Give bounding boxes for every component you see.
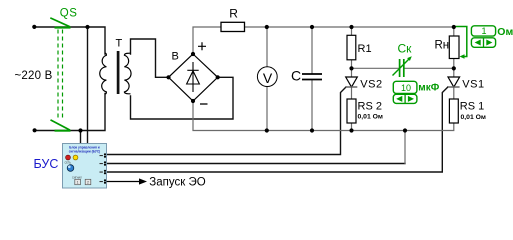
thyristor VS1 (448, 77, 460, 87)
spinner Ck value box (393, 81, 417, 103)
spinner Rn value box (471, 26, 495, 48)
arrow Zapusk EO (107, 181, 140, 183)
node voltmeter top rail junction (265, 25, 269, 29)
node phase tap junction (85, 25, 89, 29)
svg-text:B: B (172, 51, 179, 63)
capacitor C (302, 74, 322, 80)
svg-text:мкФ: мкФ (418, 82, 439, 93)
wire AC bottom (neutral) from primary bottom to left terminal (34, 94, 105, 131)
BUS button 1 (75, 179, 81, 184)
svg-text:Запуск ЭО: Запуск ЭО (149, 177, 205, 189)
BUS terminals (104, 153, 106, 184)
rheostat Rn wiper arrow (green) (456, 27, 467, 59)
svg-text:1: 1 (481, 26, 486, 36)
bridge inner diode (187, 62, 200, 92)
wire VS1 gate to BUS output 3 (107, 87, 448, 172)
rheostat Rn (449, 36, 459, 59)
thyristor VS2 (346, 77, 358, 87)
node VS2 anode junction (349, 66, 353, 70)
svg-text:2: 2 (87, 181, 89, 185)
wire DC bottom rail (193, 101, 454, 131)
node R1 top rail junction (349, 25, 353, 29)
label minus (200, 103, 208, 105)
svg-text:СИГНАЛ: СИГНАЛ (72, 176, 82, 179)
svg-text:10: 10 (401, 83, 411, 93)
bridge rectifier B diamond (169, 54, 218, 101)
BUS knob (67, 165, 74, 172)
svg-text:R1: R1 (358, 43, 372, 55)
svg-text:Ск: Ск (398, 42, 413, 56)
node capacitor C bottom rail junction (310, 128, 314, 132)
wire secondary bottom to bridge right vertex (131, 77, 234, 119)
node neutral tap junction (78, 128, 82, 132)
wire voltmeter stubs (266, 27, 268, 131)
svg-text:VS2: VS2 (360, 79, 382, 91)
wire Rn stubs (453, 27, 455, 68)
node AC input top terminal (32, 25, 36, 29)
svg-text:0,01 Ом: 0,01 Ом (461, 114, 486, 121)
wire VS2 gate to BUS output 1 (107, 87, 347, 155)
resistor R (221, 22, 245, 31)
transformer T core (117, 51, 120, 94)
node Rn top rail junction (452, 25, 456, 29)
wire R1 stubs (351, 27, 353, 68)
BUS button 2 (85, 179, 91, 184)
svg-text:RS 2: RS 2 (358, 101, 382, 113)
svg-text:СЕТЬ: СЕТЬ (65, 161, 72, 164)
svg-text:V: V (263, 70, 273, 86)
resistor RS2 (347, 99, 356, 123)
svg-text:C: C (291, 67, 301, 83)
resistor RS1 (449, 99, 458, 123)
wire phase tap down to BUS unit (87, 27, 89, 144)
node VS1 anode junction (452, 66, 456, 70)
wire anode node VS2 to Ck left plate (352, 67, 400, 69)
switch QS (50, 18, 70, 131)
capacitor Ck (variable, green) (393, 59, 410, 77)
wire BUS common riser to rail (404, 131, 406, 164)
svg-text:RS 1: RS 1 (460, 101, 484, 113)
node AC input bottom terminal (33, 128, 37, 132)
capacitor Ck arrowhead (407, 56, 412, 61)
svg-text:~220 В: ~220 В (15, 70, 53, 82)
node bridge left vertex (166, 75, 170, 79)
node voltmeter bottom rail junction (265, 128, 269, 132)
wire VS2 anode and cathode stubs (351, 68, 353, 130)
BUS yellow LED (73, 155, 78, 160)
node bridge right vertex (216, 75, 220, 79)
wire secondary top to bridge left vertex (131, 39, 169, 77)
svg-text:Rн: Rн (435, 40, 450, 52)
resistor R1 (347, 35, 356, 60)
svg-text:0,01 Ом: 0,01 Ом (358, 113, 383, 120)
transformer T primary winding (100, 53, 107, 94)
wire neutral tap down to BUS unit (80, 131, 82, 144)
svg-text:сигнализации (БУС): сигнализации (БУС) (69, 149, 100, 153)
transformer T secondary winding (124, 53, 131, 94)
svg-text:QS: QS (60, 7, 78, 19)
node bridge bottom vertex (-) (191, 99, 195, 103)
svg-text:Ом: Ом (497, 26, 513, 38)
wire AC top (220V phase) (34, 27, 105, 54)
label plus (198, 42, 206, 50)
svg-text:VS1: VS1 (462, 79, 484, 91)
node BUS common rail junction (403, 128, 407, 132)
wire DC top rail (193, 27, 454, 54)
wire capacitor C stubs (311, 27, 313, 131)
svg-text:1: 1 (77, 181, 79, 185)
BUS control unit box (63, 144, 107, 189)
node RS2 bottom rail junction (349, 128, 353, 132)
svg-text:T: T (116, 38, 123, 50)
wire Ck right plate to anode node VS1 (404, 67, 454, 69)
node capacitor C top rail junction (310, 25, 314, 29)
svg-text:БУС: БУС (34, 157, 59, 171)
node bridge top vertex (+) (191, 52, 195, 56)
svg-text:R: R (229, 7, 238, 21)
wire VS1 anode and cathode stubs (453, 68, 455, 99)
BUS red LED (66, 155, 71, 160)
voltmeter V (257, 67, 277, 87)
wire BUS output 2 toward DC bottom rail (107, 163, 406, 165)
